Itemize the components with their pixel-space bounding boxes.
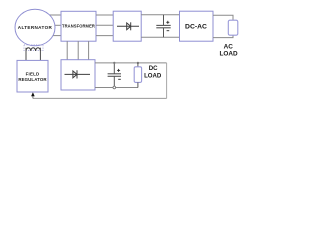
label AC LOAD [220, 44, 238, 58]
svg-text:FIELD: FIELD [26, 72, 40, 77]
wire: feedback rise into regulator [32, 96, 34, 99]
wire: transformer tap 3 down to lower rectifier [88, 41, 90, 60]
transformer T1 [61, 11, 96, 41]
field regulator box [17, 60, 48, 92]
wire: inverter output bottom to AC load [213, 35, 233, 37]
capacitor C2 [108, 63, 121, 88]
wire: R load bottom stub [137, 82, 139, 87]
inverter DC-AC [180, 11, 214, 41]
wire: field lead right to regulator [39, 48, 41, 61]
svg-text:DC-AC: DC-AC [185, 24, 207, 31]
wire: phase B transformer to rectifier [96, 24, 113, 26]
wire: phase C alternator to transformer [49, 35, 61, 37]
wire: transformer tap 2 down to lower rectifier [77, 41, 79, 60]
wire: phase A alternator to transformer [47, 14, 61, 16]
wire: phase B alternator to transformer [50, 24, 61, 26]
wire: feedback down segment [166, 63, 168, 99]
field winding coil L1 [26, 48, 40, 51]
wire: feedback bottom run to regulator [33, 97, 167, 99]
wire: field lead left to regulator [25, 48, 27, 61]
wire: inverter output top to AC load [213, 15, 233, 20]
svg-text:DC: DC [149, 65, 158, 72]
wire: transformer tap 1 down to lower rectifier [66, 41, 68, 60]
wire: R load top stub [137, 63, 139, 67]
C2 polarity plus [117, 69, 120, 72]
wire: DC bus negative rail (bottom) [141, 36, 179, 38]
DC load resistor R1 [134, 67, 141, 83]
rotor field dashed enclosure [24, 45, 43, 51]
junction: R load top [137, 62, 139, 64]
label DC LOAD [144, 65, 162, 80]
C2 polarity minus [118, 78, 121, 80]
diode D1 symbol [117, 22, 139, 30]
wire: phase A transformer to rectifier [96, 14, 113, 16]
wire: lower DC positive rail [95, 62, 167, 64]
capacitor C1 [156, 15, 170, 38]
wire: DC bus positive rail (top) [141, 14, 179, 16]
wire: lower DC negative rail [95, 87, 138, 89]
svg-text:AC: AC [224, 44, 234, 51]
arrowhead into field regulator [31, 92, 35, 96]
svg-text:REGULATOR: REGULATOR [18, 77, 47, 82]
wire: phase C transformer to rectifier [96, 35, 113, 37]
svg-text:LOAD: LOAD [220, 51, 238, 58]
junction: C2 bottom [113, 86, 116, 89]
rectifier U2 box (lower) [61, 60, 95, 90]
svg-text:LOAD: LOAD [144, 73, 162, 80]
C1 polarity plus [166, 21, 169, 24]
AC load resistor [228, 20, 238, 35]
svg-text:ALTERNATOR: ALTERNATOR [18, 25, 53, 30]
C1 polarity minus [167, 30, 170, 32]
svg-text:TRANSFORMER: TRANSFORMER [62, 24, 95, 29]
alternator G1 [15, 9, 55, 46]
rectifier U1 box [113, 11, 141, 41]
junction: C2 top [113, 62, 115, 64]
diode D2 symbol [65, 70, 91, 78]
